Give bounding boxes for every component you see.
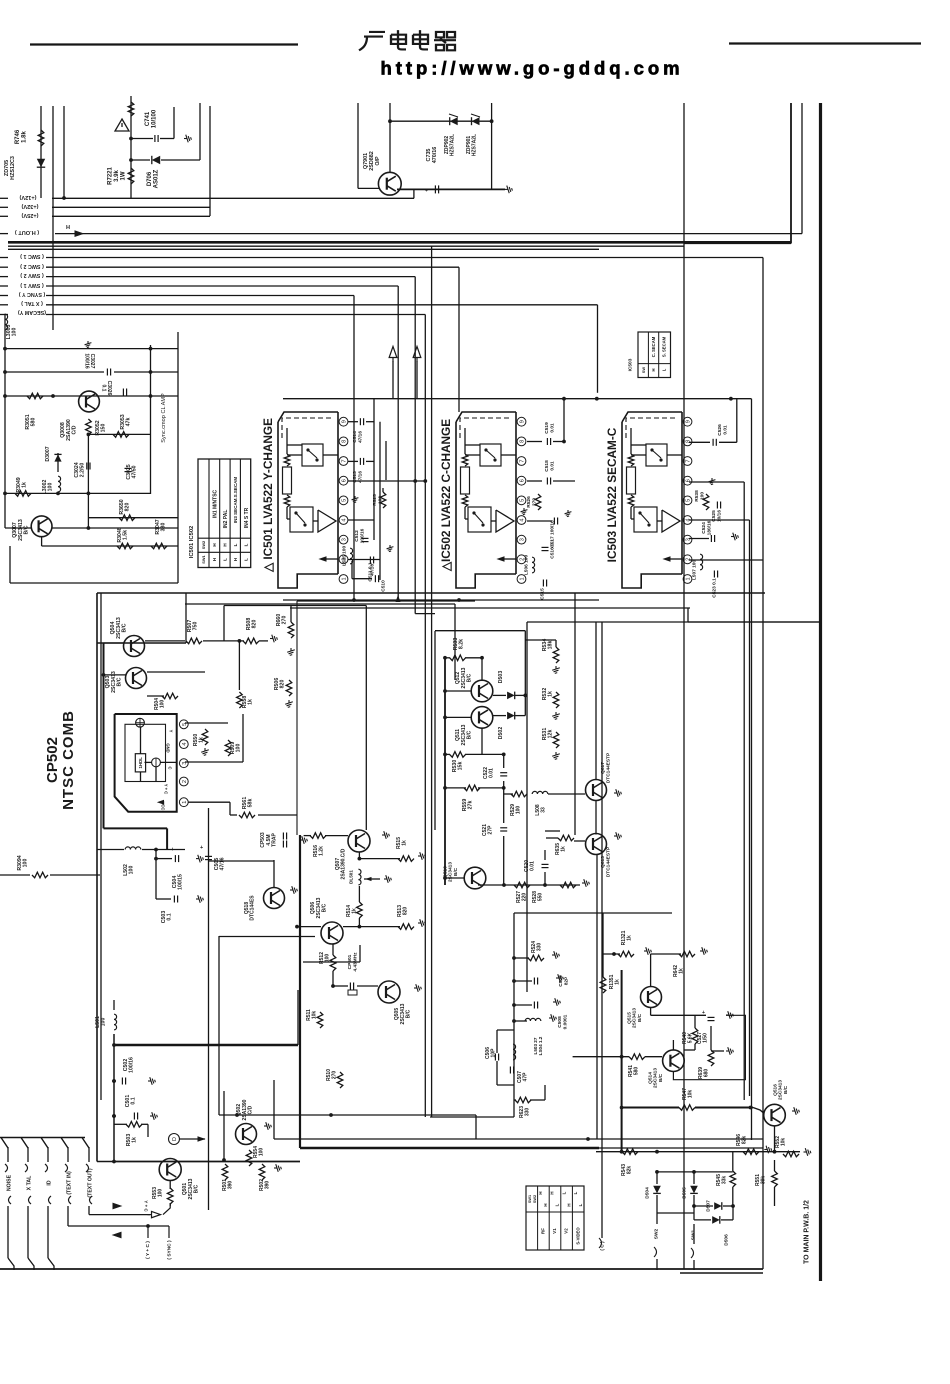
label CP502 NTSC COMB (44, 710, 77, 810)
svg-text:580: 580 (31, 418, 37, 427)
transistor Q501 (159, 1159, 181, 1181)
capacitor C504 (155, 850, 157, 900)
svg-text:47P: 47P (523, 1072, 529, 1082)
op-amp IC503 LVA522 SECAM-C block (622, 422, 682, 588)
svg-text:82P: 82P (563, 976, 569, 985)
transistor Q518 (264, 888, 285, 909)
svg-text:10k: 10k (688, 1090, 694, 1099)
wire line 1152 (596, 1151, 800, 1153)
node SW1 (691, 1229, 697, 1240)
wire (465, 657, 482, 659)
header rule left (30, 43, 298, 45)
inner rect (125, 724, 166, 781)
svg-text:(+25V): (+25V) (21, 212, 38, 218)
connector (TEXT IN) (61, 1138, 68, 1149)
svg-text:HZS7A2L: HZS7A2L (450, 134, 456, 156)
wire (680, 1272, 763, 1274)
svg-text:4: 4 (182, 743, 188, 746)
svg-text:82k: 82k (742, 1136, 748, 1145)
svg-text:IN3 SECAM.S.SECAM: IN3 SECAM.S.SECAM (233, 477, 238, 524)
svg-text:LS04 1.2: LS04 1.2 (538, 1036, 543, 1055)
svg-text:(SECAM Y): (SECAM Y) (18, 309, 46, 315)
resistor R554 (246, 1150, 252, 1166)
wire (185, 722, 228, 724)
rail +25V (0, 215, 8, 217)
svg-text:580: 580 (634, 1067, 640, 1076)
svg-text:8: 8 (520, 440, 526, 443)
svg-text:1k: 1k (402, 840, 408, 846)
svg-text:8: 8 (342, 440, 348, 443)
wire (203, 640, 244, 642)
resistor R515 (358, 857, 362, 861)
wire drop SWC1 right (762, 258, 764, 1270)
svg-text:C515: C515 (540, 588, 546, 600)
resistor R3053 (113, 432, 129, 438)
wire (100, 593, 102, 1100)
svg-text:R526: R526 (526, 496, 532, 508)
delay line 1H DL (135, 754, 145, 772)
svg-text:L: L (243, 543, 248, 546)
wire (373, 399, 375, 540)
page border bottom (0, 1268, 763, 1270)
transistor Q516 (764, 1104, 786, 1126)
resistor R3048 (117, 543, 133, 549)
ground (709, 478, 716, 485)
resistor R510 (337, 1072, 343, 1088)
wire (150, 345, 152, 494)
wire (104, 642, 125, 644)
capacitor C514 (348, 421, 358, 423)
svg-text:9: 9 (520, 420, 526, 423)
resistor R558 (237, 692, 243, 708)
svg-text:DL501: DL501 (349, 870, 354, 884)
wire (389, 103, 391, 173)
svg-text:7: 7 (520, 459, 526, 462)
svg-text:( Y + C ): ( Y + C ) (145, 1241, 151, 1259)
capacitor C501 (133, 1113, 135, 1120)
svg-text:1HDL: 1HDL (138, 757, 143, 769)
svg-text:1k: 1k (132, 1137, 138, 1143)
resistor R561 (188, 801, 230, 803)
diode D504 (653, 1186, 661, 1194)
rail +32V (0, 206, 8, 208)
diode D507 (714, 1202, 722, 1210)
wire (97, 592, 765, 594)
svg-text:B/C: B/C (321, 903, 327, 912)
svg-text:D706: D706 (147, 171, 153, 186)
capacitor C506 (494, 1054, 496, 1061)
diode D706 (131, 159, 150, 161)
wire (5, 527, 31, 529)
svg-text:SW1: SW1 (201, 554, 206, 563)
resistor R553 (152, 1187, 164, 1199)
wire (224, 605, 366, 607)
svg-text:B/C: B/C (24, 525, 30, 534)
inductor L501 (114, 1014, 117, 1030)
wire (5, 395, 178, 397)
connector NOISE (1, 1138, 8, 1149)
arrow (365, 877, 371, 881)
op-amp IC501 LVA522 Y-CHANGE block (278, 422, 338, 588)
resistor R514 (358, 886, 360, 902)
svg-text:D504: D504 (645, 1187, 651, 1199)
diode D505 (690, 1186, 698, 1194)
svg-text:6: 6 (520, 479, 526, 482)
svg-text:2SA1390.C/D: 2SA1390.C/D (341, 848, 347, 879)
wire (283, 398, 752, 400)
wire stub rail (0, 1137, 85, 1139)
wire (657, 1171, 733, 1173)
resistor R3049 (15, 491, 31, 497)
svg-text:0.0001: 0.0001 (562, 1014, 568, 1029)
svg-text:C526: C526 (717, 424, 723, 436)
wire (113, 1000, 115, 1010)
svg-text:1k: 1k (22, 482, 28, 488)
svg-text:C509: C509 (558, 975, 564, 987)
wire (283, 599, 599, 601)
wire (40, 106, 42, 198)
svg-text:S-VIDEO: S-VIDEO (576, 1227, 581, 1245)
pins CP502 (179, 720, 188, 729)
capacitor C510 (374, 575, 376, 582)
inductor L503 (513, 1044, 516, 1060)
wire (650, 1008, 652, 1015)
svg-text:R746: R746 (15, 129, 21, 144)
transistor Q510 (464, 867, 486, 889)
svg-text:330: 330 (161, 523, 167, 532)
svg-text:Q515: Q515 (626, 1012, 632, 1024)
transistor Q502 (236, 1124, 257, 1145)
capacitor C522 (500, 772, 507, 774)
svg-text:SW2: SW2 (201, 540, 206, 549)
resistor R506 (286, 680, 292, 696)
svg-text:2SC3413: 2SC3413 (632, 1008, 638, 1028)
svg-text:L506 100: L506 100 (524, 555, 530, 576)
resistor R503 (114, 1123, 127, 1125)
wire (88, 433, 150, 435)
svg-text:0.01: 0.01 (549, 461, 555, 471)
op-amp IC502 LVA522 C-CHANGE block (456, 422, 516, 588)
svg-text:1k: 1k (679, 968, 685, 974)
transistor Q504 (124, 636, 145, 657)
capacitor C741 (131, 138, 153, 140)
svg-text:L: L (573, 1191, 578, 1194)
zener ZD7902 (450, 117, 458, 125)
wire rail x514 (513, 913, 515, 1117)
resistor R540 (692, 1028, 698, 1044)
svg-text:470/16: 470/16 (432, 147, 438, 164)
resistor R623 (515, 1097, 531, 1103)
svg-text:Q613: Q613 (600, 856, 606, 868)
svg-text:C510: C510 (381, 580, 387, 592)
resistor R509 (225, 740, 231, 756)
resistor R508 (243, 638, 259, 644)
capacitor C520 (542, 863, 549, 865)
wire drop SWV2 (414, 277, 416, 614)
node (Y+C) (145, 1241, 151, 1259)
resistor R501 (222, 1164, 228, 1180)
svg-text:6: 6 (342, 479, 348, 482)
rail H.OUT (0, 233, 8, 235)
wire (303, 961, 360, 963)
svg-text:100: 100 (129, 866, 135, 875)
wire (491, 103, 493, 189)
svg-text:IN1 M/NTSC: IN1 M/NTSC (212, 489, 218, 518)
label IC502 (439, 419, 453, 572)
svg-text:1: 1 (686, 577, 692, 580)
svg-text:10/100: 10/100 (151, 109, 157, 128)
svg-text:C/D: C/D (72, 425, 78, 434)
resistor R1321 (618, 951, 634, 957)
svg-text:5.6K: 5.6K (688, 1032, 694, 1043)
wire drop SECAM Y (424, 315, 426, 1118)
svg-text:10k: 10k (781, 1138, 787, 1147)
svg-text:3: 3 (342, 538, 348, 541)
svg-text:L: L (561, 1191, 566, 1194)
svg-text:C514: C514 (352, 431, 358, 443)
transistor Q7901 (378, 172, 401, 195)
ground (184, 135, 191, 143)
svg-text:B/C: B/C (122, 623, 128, 632)
svg-text:NOISE: NOISE (6, 1174, 12, 1191)
wire (753, 1108, 764, 1114)
svg-text:TRAP: TRAP (271, 833, 277, 847)
transistor Q515 (641, 987, 662, 1008)
transistor Q3007 (31, 516, 52, 537)
label IC503 (605, 427, 619, 562)
node Y+C arrow (148, 1211, 161, 1217)
svg-text:3: 3 (520, 538, 526, 541)
svg-text:+: + (702, 1010, 705, 1016)
wire (790, 103, 792, 244)
capacitor C517 (553, 518, 555, 525)
resistor R512 (330, 955, 336, 971)
svg-text:680: 680 (704, 1069, 710, 1078)
svg-text:0.01: 0.01 (722, 425, 728, 435)
svg-text:5: 5 (342, 499, 348, 502)
label sync clamp (161, 393, 167, 443)
svg-text:12k: 12k (548, 730, 554, 739)
diode D3007 (57, 453, 59, 472)
switch D circle (169, 1134, 180, 1145)
svg-text:100/16: 100/16 (129, 1057, 135, 1073)
inductor L504 (514, 1020, 527, 1022)
svg-text:B/C: B/C (405, 1009, 411, 1018)
wire (596, 855, 598, 1139)
svg-text:( SWC 1 ): ( SWC 1 ) (20, 253, 44, 259)
inductor L506 (532, 557, 535, 573)
resistor R7221 (130, 96, 132, 198)
arrow left (112, 1232, 122, 1239)
svg-text:390: 390 (265, 1181, 271, 1190)
svg-text:DTC144ESTP: DTC144ESTP (605, 752, 611, 783)
capacitor C513 (348, 460, 358, 462)
svg-text:270: 270 (531, 498, 537, 506)
svg-text:1/50: 1/50 (703, 1033, 709, 1043)
svg-text:http://www.go-gddq.com: http://www.go-gddq.com (381, 58, 684, 79)
svg-text:IC501 IC502: IC501 IC502 (189, 526, 195, 559)
transistor Q617 (586, 780, 607, 801)
transistor Q613 (586, 834, 607, 855)
bus SWV 1 (0, 285, 8, 287)
arrow up 1 (389, 347, 397, 362)
svg-text:9: 9 (342, 420, 348, 423)
svg-text:SW2: SW2 (533, 1195, 537, 1203)
svg-text:2SC3413: 2SC3413 (778, 1080, 784, 1100)
svg-text:L: L (662, 368, 667, 371)
wire rail 885 (478, 884, 580, 886)
wire drop X TAL (597, 305, 599, 393)
svg-text:47/16: 47/16 (357, 431, 363, 443)
capacitor C524 (710, 535, 712, 542)
svg-text:TO MAIN P.W.B. 1/2: TO MAIN P.W.B. 1/2 (804, 1200, 811, 1264)
svg-text:DTC144ESTP: DTC144ESTP (605, 846, 611, 877)
resistor R530 (450, 752, 466, 758)
label TO MAIN PWB (804, 1200, 811, 1264)
wire (574, 593, 576, 835)
svg-text:100: 100 (325, 954, 331, 963)
svg-text:B/C: B/C (193, 1184, 199, 1193)
resistor R543 (622, 1149, 638, 1155)
capacitor C735 (434, 185, 436, 193)
svg-text:100: 100 (377, 496, 383, 504)
bus line (8, 248, 599, 250)
warning triangle (115, 119, 129, 131)
wire box (434, 631, 436, 830)
crystal CP501 (331, 984, 335, 988)
svg-text:2SC3413: 2SC3413 (653, 1068, 659, 1088)
wire (63, 106, 65, 198)
table IC503 switch (638, 332, 671, 378)
inductor L3003 (5, 314, 8, 330)
svg-text:3.9k: 3.9k (114, 170, 120, 182)
svg-text:100/15: 100/15 (178, 874, 184, 890)
svg-text:C516 0.1: C516 0.1 (550, 539, 556, 559)
svg-text:IN4 S TR: IN4 S TR (244, 507, 250, 528)
svg-text:1.8k: 1.8k (21, 131, 27, 143)
svg-text:Sync.cmop CL AMP: Sync.cmop CL AMP (161, 393, 167, 443)
capacitor C521 (500, 827, 507, 829)
wire heavy emitter (397, 188, 505, 190)
svg-text:1k: 1k (561, 846, 567, 852)
capacitor C518 (527, 480, 542, 482)
svg-text:100: 100 (23, 859, 29, 868)
wire (743, 482, 745, 1100)
wire (656, 1259, 658, 1270)
ground (352, 496, 359, 503)
wire (683, 103, 685, 1269)
svg-text:X TAL: X TAL (26, 1175, 32, 1190)
svg-text:D502: D502 (498, 727, 504, 740)
svg-text:( X TAL ): ( X TAL ) (21, 300, 43, 306)
svg-text:100: 100 (516, 806, 522, 815)
bus line (8, 245, 684, 247)
svg-text:100: 100 (699, 492, 705, 500)
transistor Q511 (471, 707, 493, 729)
svg-text:4: 4 (520, 518, 526, 521)
resistor R526 (535, 494, 541, 510)
ground (85, 341, 92, 348)
connector X TAL (21, 1138, 28, 1149)
wire (357, 103, 359, 188)
svg-text:O/P: O/P (375, 156, 381, 166)
svg-text:H: H (550, 1191, 555, 1194)
svg-text:C523 0.1: C523 0.1 (712, 578, 718, 598)
wire left rail (4, 314, 6, 528)
wire (392, 361, 394, 399)
svg-text:S. SECAM: S. SECAM (662, 336, 667, 357)
svg-text:C508: C508 (557, 1016, 563, 1028)
svg-text:100/16: 100/16 (359, 528, 365, 543)
wire (223, 1091, 225, 1160)
resistor R533 (445, 657, 450, 659)
svg-text:550: 550 (538, 893, 544, 902)
svg-text:Q617: Q617 (600, 762, 606, 774)
svg-text:27P: 27P (488, 825, 494, 835)
svg-text:SW1: SW1 (528, 1195, 532, 1203)
svg-text:SW2: SW2 (654, 1228, 660, 1239)
svg-text:( SWV 1 ): ( SWV 1 ) (20, 282, 44, 288)
wire (5, 348, 178, 350)
zener ZD705 (37, 159, 45, 167)
wire pin6 (348, 480, 425, 482)
svg-text:82k: 82k (627, 1166, 633, 1175)
wire boundary (177, 332, 179, 583)
diode D502 (507, 712, 515, 720)
svg-text:H: H (222, 543, 227, 547)
svg-text:R7221: R7221 (108, 167, 114, 185)
svg-text:CP502: CP502 (44, 737, 61, 783)
table IC501 IC502 modes (198, 459, 251, 568)
svg-text:(TEXT IN): (TEXT IN) (66, 1171, 72, 1195)
resistor R502 (259, 1164, 265, 1180)
wire (42, 545, 178, 547)
wire (5, 492, 151, 494)
svg-text:Q514: Q514 (647, 1072, 653, 1084)
svg-text:0.01: 0.01 (489, 768, 495, 778)
svg-text:58k: 58k (248, 799, 254, 808)
wire (274, 1138, 763, 1140)
wire box (218, 936, 220, 1115)
bus SECAM Y (0, 314, 8, 316)
arrow vcc (157, 800, 164, 805)
svg-text:H: H (566, 1203, 571, 1206)
svg-text:7: 7 (342, 459, 348, 462)
resistor R504 (162, 693, 178, 699)
svg-text:( SYNC ): ( SYNC ) (167, 1240, 173, 1260)
ground (505, 186, 512, 194)
wire (736, 399, 738, 443)
label IC501 (261, 418, 275, 573)
resistor R524 (514, 957, 529, 959)
svg-text:100: 100 (48, 483, 54, 492)
svg-text:C/D: C/D (247, 1105, 253, 1114)
bus SWC 1 (0, 257, 8, 259)
svg-text:100/16: 100/16 (83, 353, 89, 369)
svg-text:GND: GND (166, 743, 171, 752)
node (SYNC) (167, 1240, 173, 1260)
svg-text:1: 1 (182, 801, 188, 804)
resistor R531 (553, 732, 559, 748)
capacitor C509 (514, 980, 532, 982)
svg-text:DTC144ES: DTC144ES (250, 895, 256, 921)
svg-text:39k: 39k (761, 1176, 767, 1185)
svg-text:1k: 1k (199, 737, 205, 743)
svg-text:2SC3413: 2SC3413 (448, 862, 454, 882)
wire (163, 1203, 170, 1215)
wire (413, 189, 415, 198)
svg-text:7: 7 (686, 459, 692, 462)
